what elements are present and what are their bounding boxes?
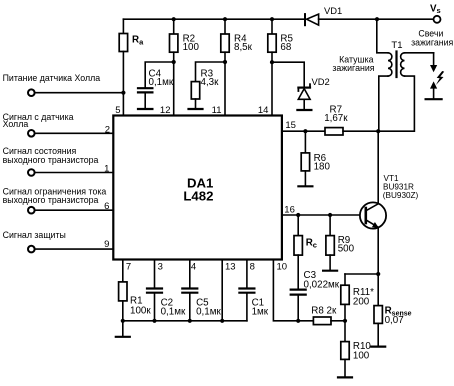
ground R9 (323, 270, 337, 272)
svg-text:(BU930Z): (BU930Z) (383, 191, 419, 200)
svg-text:5: 5 (115, 105, 120, 116)
svg-text:выходного транзистора: выходного транзистора (3, 155, 99, 165)
svg-text:Холла: Холла (3, 119, 29, 129)
svg-text:4: 4 (191, 262, 196, 273)
resistor R8 2k (311, 306, 345, 325)
svg-text:8,5к: 8,5к (234, 42, 253, 53)
IC DA1 L482 (113, 116, 282, 260)
resistor Rsense 0,07 (374, 306, 412, 346)
wire top supply rail (123, 18, 305, 20)
svg-text:15: 15 (285, 120, 296, 131)
resistor R6 180 (301, 131, 330, 185)
svg-text:7: 7 (126, 262, 131, 273)
node junction R5 top (270, 17, 274, 21)
resistor Rc (294, 215, 317, 288)
svg-text:0,1мк: 0,1мк (196, 307, 221, 318)
node junction emitter / R11 (376, 272, 380, 276)
svg-text:11: 11 (212, 105, 222, 116)
svg-text:T1: T1 (391, 40, 402, 51)
diode VD1 (305, 5, 342, 25)
wire pin 12 (173, 62, 175, 116)
node junction VD1-Vs-coil (375, 17, 379, 21)
svg-text:0,022мк: 0,022мк (304, 279, 340, 290)
resistor R2 100 (170, 19, 200, 62)
svg-text:200: 200 (353, 296, 370, 307)
ground C4 (138, 108, 152, 110)
svg-text:4,3к: 4,3к (201, 77, 220, 88)
terminal output-state signal pin1 (3, 146, 114, 176)
ground VD2 (297, 109, 311, 111)
svg-text:L482: L482 (183, 189, 213, 204)
resistor R7 1,67k (324, 105, 378, 135)
node junction C2 bottom (152, 319, 156, 323)
capacitor C3 0,022mk (291, 270, 340, 321)
wire pin 8 (246, 260, 248, 288)
svg-text:10: 10 (277, 262, 288, 273)
wire pin 5 (122, 93, 124, 116)
capacitor C2 0,1mk (147, 289, 186, 321)
node junction Rc top (296, 213, 300, 217)
node junction R8 / R11 / R10 (343, 319, 347, 323)
svg-text:1,67к: 1,67к (324, 113, 348, 124)
svg-text:100к: 100к (130, 305, 151, 316)
wire pin 7 (122, 260, 124, 282)
svg-text:зажигания: зажигания (332, 63, 374, 73)
svg-text:0,1мк: 0,1мк (149, 77, 174, 88)
ground bar Rsense (371, 346, 385, 348)
terminal protect signal pin9 (3, 230, 114, 252)
wire VD1 anode to Vs (319, 18, 434, 20)
node junction pin11 / R3 (223, 60, 227, 64)
svg-text:180: 180 (314, 161, 331, 172)
wire pin 13 (221, 260, 223, 321)
resistor R4 8,5k (221, 19, 253, 62)
resistor R10 100 (341, 321, 372, 377)
terminal Vs (430, 4, 441, 23)
svg-text:Питание датчика Холла: Питание датчика Холла (3, 73, 101, 83)
node junction R9 top (328, 213, 332, 217)
capacitor C4 0,1mk (138, 62, 174, 108)
ground R10 (338, 376, 352, 378)
svg-text:16: 16 (284, 205, 295, 216)
ground R6 (298, 185, 312, 187)
wire pin 10 (273, 260, 313, 321)
node junction pin13 bottom (220, 319, 224, 323)
svg-text:0,07: 0,07 (385, 315, 404, 326)
terminal current-limit signal pin6 (3, 187, 114, 214)
node junction pin14 / VD2 (270, 60, 274, 64)
resistor R9 500 (326, 215, 355, 270)
svg-text:68: 68 (280, 42, 291, 53)
resistor R5 68 (268, 19, 294, 62)
wire collector (377, 131, 379, 203)
ground main (116, 321, 130, 337)
node junction pin5 / hall supply (121, 91, 125, 95)
svg-text:0,1мк: 0,1мк (161, 307, 186, 318)
wire pin 15 to node (282, 130, 325, 132)
svg-text:12: 12 (160, 105, 171, 116)
capacitor C5 0,1mk (182, 289, 221, 321)
node junction C3 bottom (296, 319, 300, 323)
node junction R4 top (223, 17, 227, 21)
ignition coil T1 (377, 19, 434, 131)
terminal hall signal pin2 (3, 112, 114, 137)
svg-text:VD1: VD1 (324, 5, 342, 16)
transistor VT1 BU931R (360, 174, 419, 229)
node junction R6 top (303, 129, 307, 133)
resistor R11* 200 (341, 274, 378, 321)
wire bottom ground bus (123, 320, 247, 322)
svg-text:зажигания: зажигания (411, 38, 453, 48)
spark plug gap (430, 53, 444, 98)
wire pin 4 (189, 260, 191, 288)
svg-text:1мк: 1мк (252, 307, 269, 318)
wire pin 11 (224, 62, 226, 116)
svg-text:VD2: VD2 (312, 76, 330, 87)
svg-text:100: 100 (353, 350, 370, 361)
svg-text:100: 100 (183, 42, 200, 53)
svg-text:R8 2к: R8 2к (311, 306, 337, 317)
svg-text:Сигнал защиты: Сигнал защиты (3, 230, 66, 240)
svg-text:500: 500 (338, 244, 355, 255)
node junction R1 / ground (121, 319, 125, 323)
node junction collector/coil/R7 (376, 129, 380, 133)
svg-text:8: 8 (250, 262, 255, 273)
resistor R3 4,3k (191, 62, 225, 108)
svg-text:выходного транзистора: выходного транзистора (3, 195, 99, 205)
ground spark plug (426, 98, 442, 100)
node junction pin12 / C4 (172, 60, 176, 64)
wire emitter (377, 227, 379, 305)
node junction C5 bottom (188, 319, 192, 323)
svg-text:3: 3 (158, 262, 163, 273)
wire pin 14 (271, 62, 273, 115)
svg-text:13: 13 (225, 262, 236, 273)
node junction R2 top (172, 17, 176, 21)
wire pin 3 (154, 260, 156, 288)
terminal hall supply (3, 73, 124, 96)
ground R3 (189, 108, 203, 110)
resistor R1 100k (119, 282, 152, 321)
capacitor C1 1mk (239, 289, 268, 321)
zener diode VD2 (272, 62, 330, 109)
resistor Ra (119, 19, 144, 93)
svg-text:Vs: Vs (430, 4, 441, 16)
wire pin 16 / base (282, 214, 366, 216)
svg-text:14: 14 (258, 105, 269, 116)
